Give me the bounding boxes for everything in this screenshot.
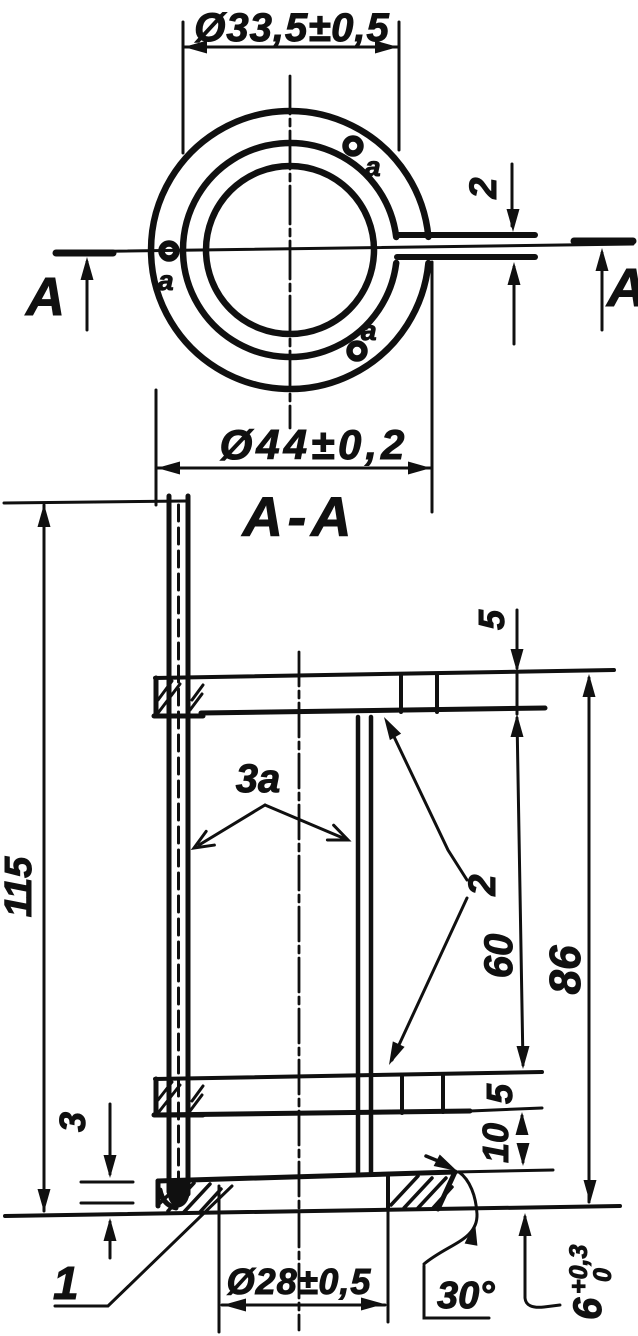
svg-text:A - A: A - A [241,485,352,548]
svg-text:a: a [365,151,381,182]
dimension 3 [109,1104,112,1174]
top bar divider 2 [435,674,439,712]
dim 33.5 extension line right [398,22,401,150]
long right dimension line (5/60/5/10/6) [516,610,519,668]
base bottom long line [5,1206,620,1216]
svg-text:86: 86 [541,945,590,994]
svg-text:1: 1 [53,1257,79,1309]
section arrow right [601,253,604,330]
vertical centerline [289,76,292,428]
base left edge [156,1181,161,1206]
svg-text:3: 3 [52,1112,93,1132]
hole a upper right [346,139,361,154]
section arrow left [86,262,89,330]
svg-text:60: 60 [477,934,521,979]
slot top line [397,232,535,238]
lower bar divider 2 [441,1074,445,1112]
rod tip fillet left [160,1190,176,1208]
dim line 44 [156,467,432,470]
svg-text:a: a [361,315,377,346]
dimension 6 +0,3/0 [525,1217,560,1307]
lower bar top edge [155,1072,542,1079]
svg-text:2: 2 [463,177,505,199]
dimension line 86 [588,678,591,1202]
top extension line of side view [4,501,187,503]
lower collar hatched [154,1079,159,1115]
svg-text:6: 6 [566,1297,610,1320]
outer circle (44 dia) [151,111,428,389]
arrows 5 lower and 10 [521,1116,524,1123]
slot bottom line [397,254,535,260]
hatch right base boundary [386,1175,390,1209]
lower bar bottom extension [470,1108,542,1111]
dim line 33.5 [183,46,399,49]
lower bar divider 1 [400,1075,404,1113]
svg-text:0: 0 [589,1268,617,1282]
dim line 28 [222,1304,385,1307]
hatch left base [160,1183,181,1203]
hole a left [162,244,177,259]
svg-text:30°: 30° [437,1275,495,1317]
top bar bottom edge [201,708,545,713]
horizontal centerline [57,244,633,252]
hatch right base [391,1176,418,1205]
left rod right edge [186,496,191,1194]
base top edge [158,1172,455,1181]
30 deg curved leader [424,1172,477,1264]
svg-text:Ø44±0,2: Ø44±0,2 [220,421,409,468]
svg-text:Ø33,5±0,5: Ø33,5±0,5 [194,6,390,50]
section trace thick line right [574,238,633,245]
svg-text:5: 5 [471,609,512,630]
right rod (3a) left edge [356,717,361,1172]
top bar divider 1 [399,675,403,712]
dim 28 extension right [387,1209,390,1322]
base top extension right [455,1170,553,1172]
left rod dashed centerline [177,505,180,1188]
lower bar bottom edge [155,1111,470,1115]
svg-text:3a: 3a [236,757,281,801]
svg-text:A: A [605,258,638,318]
middle circle (33.5 dia) [183,143,396,357]
hole a lower right [350,344,365,359]
top bar top edge [155,670,614,678]
inner circle [206,166,374,334]
base chamfer right edge [438,1172,455,1209]
left rod rounded bottom tip [169,1184,188,1205]
dim 44 extension line right [431,262,434,512]
dim 28 extension left [218,1186,221,1332]
section trace thick line left [56,250,113,257]
dimension 2 (slot width) [511,164,514,226]
vertical centerline side view [298,652,301,1330]
left rod (3a) left edge [167,496,172,1192]
svg-text:a: a [158,265,174,296]
svg-text:5: 5 [479,1083,520,1104]
svg-text:115: 115 [0,856,40,917]
dim 44 extension line left [155,390,158,505]
svg-text:2: 2 [462,874,504,896]
svg-text:A: A [24,267,65,327]
top collar hatched [154,678,159,716]
svg-text:Ø28±0,5: Ø28±0,5 [227,1261,372,1302]
svg-text:10: 10 [475,1123,516,1163]
right rod right edge [369,717,374,1172]
dim 33.5 extension line left [182,22,185,153]
dimension line 115 [43,505,46,1211]
